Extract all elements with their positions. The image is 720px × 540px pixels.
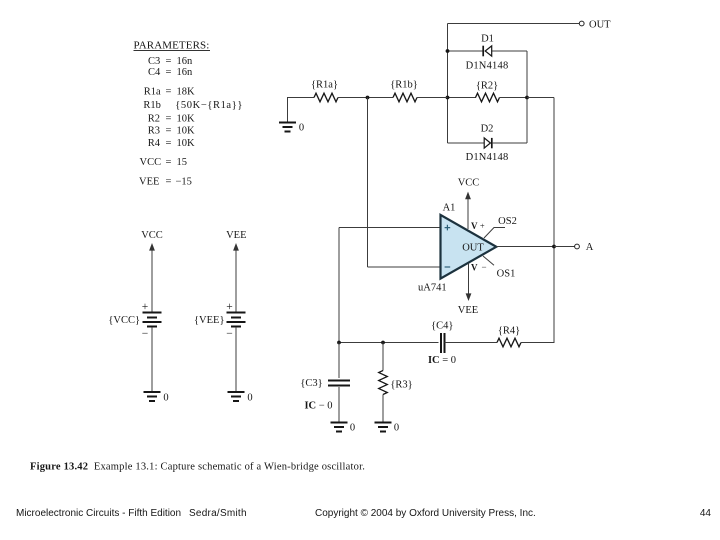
node junction output	[552, 245, 556, 249]
wire feedback vertical to inverting input	[367, 98, 369, 268]
svg-text:0: 0	[299, 122, 304, 133]
svg-text:V: V	[471, 262, 478, 272]
svg-text:VCC: VCC	[458, 177, 480, 188]
capacitor C3	[328, 380, 350, 385]
svg-text:IC = 0: IC = 0	[428, 355, 456, 366]
svg-text:=: =	[166, 157, 172, 168]
svg-text:+: +	[480, 221, 485, 231]
terminal OUT circle	[579, 21, 584, 26]
svg-text:Copyright © 2004 by Oxford Uni: Copyright © 2004 by Oxford University Pr…	[315, 508, 536, 519]
wire op-amp output	[496, 246, 554, 248]
svg-text:VCC: VCC	[141, 230, 163, 241]
resistor R4	[497, 338, 521, 347]
wire R4 to output vertical	[521, 342, 555, 344]
svg-text:R2: R2	[148, 113, 160, 124]
wire R2 row left	[448, 97, 477, 99]
battery V2 {VEE}	[227, 313, 246, 327]
wire D2 row right	[492, 142, 527, 144]
svg-text:{C4}: {C4}	[431, 320, 453, 331]
svg-text:PARAMETERS:: PARAMETERS:	[134, 40, 210, 52]
wire VEE battery to ground	[235, 327, 237, 392]
svg-text:−: −	[142, 328, 149, 340]
parameter C4 value	[148, 67, 193, 78]
svg-text:D1N4148: D1N4148	[466, 152, 509, 163]
svg-text:R4: R4	[148, 138, 161, 149]
svg-text:OUT: OUT	[589, 19, 611, 30]
wire R3 lower stub	[382, 395, 384, 423]
svg-text:{R2}: {R2}	[476, 80, 498, 91]
svg-text:VEE: VEE	[226, 230, 246, 241]
svg-text:16n: 16n	[177, 56, 194, 67]
wire D2 row left	[448, 142, 485, 144]
svg-text:A: A	[586, 242, 594, 253]
parameters heading	[134, 40, 211, 52]
wire C3 upper stub	[338, 343, 340, 378]
svg-text:=: =	[166, 113, 172, 124]
wire R2-right to output vertical	[527, 97, 554, 99]
svg-text:R1b: R1b	[143, 100, 161, 111]
label V+ pin	[471, 221, 485, 231]
svg-text:R1a: R1a	[144, 87, 161, 98]
wire D1 row	[448, 50, 528, 52]
op-amp minus input marker	[445, 266, 451, 268]
parameter R2 value	[148, 113, 195, 124]
svg-text:R3: R3	[148, 126, 160, 137]
svg-text:0: 0	[163, 392, 168, 403]
svg-text:Sedra/Smith: Sedra/Smith	[189, 508, 247, 519]
node junction feedback tap	[366, 96, 370, 100]
parameter C3 value	[148, 56, 193, 67]
svg-text:{C3}: {C3}	[300, 378, 322, 389]
wire wien bottom row left	[339, 342, 439, 344]
svg-text:−: −	[481, 262, 486, 272]
capacitor C4	[441, 333, 445, 353]
leader line OS2	[484, 228, 505, 239]
svg-text:+: +	[226, 301, 233, 313]
svg-text:{R3}: {R3}	[390, 379, 412, 390]
svg-text:{50K−{R1a}}: {50K−{R1a}}	[175, 100, 243, 111]
svg-text:15: 15	[177, 157, 188, 168]
resistor R1a	[314, 93, 338, 102]
svg-text:0: 0	[247, 392, 252, 403]
ground 0 (top left)	[279, 122, 296, 131]
leader line OS1	[483, 256, 494, 265]
label V- pin	[471, 262, 486, 273]
svg-text:−15: −15	[176, 176, 192, 187]
svg-text:VCC: VCC	[140, 157, 162, 168]
op-amp A1 triangle	[441, 215, 497, 279]
svg-text:=: =	[166, 87, 172, 98]
wire R2 row right	[500, 97, 528, 99]
svg-text:0: 0	[350, 422, 355, 433]
wire feed from ground to R1a	[288, 97, 315, 99]
wire inverting input horizontal	[368, 266, 441, 268]
parameter R1b value	[143, 100, 243, 111]
svg-text:{R1a}: {R1a}	[311, 80, 338, 91]
wire noninverting input horizontal	[339, 227, 441, 229]
rail VCC arrow	[149, 243, 155, 313]
svg-text:OS1: OS1	[497, 268, 516, 279]
wire R3 upper stub	[382, 343, 384, 371]
parameter R3 value	[148, 126, 195, 137]
wire noninverting vertical to wien node	[338, 228, 340, 343]
wire R1b to limiter	[417, 97, 448, 99]
op-amp V+ pin arrow to VCC	[465, 192, 471, 229]
wire output node vertical	[553, 98, 555, 343]
node junction D1-left	[446, 49, 450, 53]
svg-text:=: =	[166, 56, 172, 67]
diode D2	[484, 138, 492, 148]
svg-text:16n: 16n	[177, 67, 194, 78]
svg-text:10K: 10K	[177, 126, 196, 137]
parameter VCC value	[140, 157, 188, 168]
svg-text:D2: D2	[481, 124, 494, 135]
svg-text:=: =	[166, 138, 172, 149]
ground 0 (R3)	[375, 422, 392, 431]
wire R1a to R1b	[338, 97, 393, 99]
resistor R2	[476, 93, 500, 102]
wire left vertical of limiter block	[447, 24, 449, 144]
svg-text:V: V	[471, 221, 478, 231]
node junction C3 tap	[337, 341, 341, 345]
svg-text:OUT: OUT	[462, 242, 484, 253]
svg-text:−: −	[226, 328, 233, 340]
svg-text:=: =	[166, 176, 172, 187]
node junction R2-right	[525, 96, 529, 100]
ground 0 (VCC source)	[144, 392, 161, 401]
rail VEE arrow	[233, 243, 239, 313]
svg-text:=: =	[166, 67, 172, 78]
wire OUT top horizontal	[448, 23, 580, 25]
svg-text:{R4}: {R4}	[498, 325, 520, 336]
svg-text:Figure 13.42 Example 13.1: Ca: Figure 13.42 Example 13.1: Capture schem…	[30, 461, 365, 472]
op-amp plus input marker	[445, 225, 451, 231]
diode D1	[483, 46, 492, 57]
ground 0 (VEE source)	[228, 392, 245, 401]
ground 0 (C3)	[331, 422, 348, 431]
svg-text:10K: 10K	[177, 138, 196, 149]
svg-text:{VEE}: {VEE}	[194, 315, 225, 326]
op-amp V- pin arrow to VEE	[466, 264, 472, 302]
node junction R2-left	[446, 96, 450, 100]
svg-text:VEE: VEE	[458, 305, 478, 316]
svg-text:{VCC}: {VCC}	[108, 315, 140, 326]
svg-text:C3: C3	[148, 56, 160, 67]
svg-text:{R1b}: {R1b}	[390, 80, 418, 91]
svg-text:0: 0	[394, 422, 399, 433]
svg-text:Microelectronic Circuits - Fif: Microelectronic Circuits - Fifth Edition	[16, 508, 181, 519]
wire VCC battery to ground	[151, 327, 153, 392]
parameter VEE value	[139, 176, 192, 187]
wire C3 lower stub	[338, 387, 340, 422]
wire ground stub top-left	[287, 97, 289, 122]
svg-text:18K: 18K	[177, 87, 196, 98]
wire C4 to R4	[445, 342, 497, 344]
svg-text:VEE: VEE	[139, 176, 159, 187]
parameter R1a value	[144, 87, 195, 98]
svg-text:uA741: uA741	[418, 283, 447, 294]
svg-text:+: +	[142, 301, 149, 313]
svg-text:10K: 10K	[177, 113, 196, 124]
wire right vertical of limiter block	[526, 51, 528, 143]
resistor R1b	[393, 93, 417, 102]
battery V1 {VCC}	[143, 313, 162, 327]
svg-text:OS2: OS2	[498, 216, 517, 227]
svg-text:=: =	[166, 126, 172, 137]
footer left	[16, 508, 247, 519]
node junction R3 tap	[381, 341, 385, 345]
parameter R4 value	[148, 138, 195, 149]
svg-text:D1N4148: D1N4148	[466, 60, 509, 71]
svg-text:C4: C4	[148, 67, 161, 78]
svg-text:44: 44	[700, 508, 712, 519]
resistor R3	[379, 371, 388, 395]
wire output to A terminal	[554, 246, 575, 248]
terminal A circle	[575, 244, 580, 249]
svg-text:D1: D1	[481, 33, 494, 44]
svg-text:IC − 0: IC − 0	[304, 400, 332, 411]
svg-text:A1: A1	[443, 203, 456, 214]
